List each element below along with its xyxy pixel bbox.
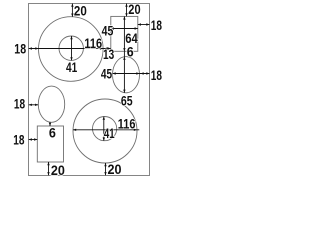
svg-text:65: 65 [121, 93, 133, 109]
svg-text:41: 41 [104, 125, 115, 141]
svg-text:18: 18 [13, 132, 24, 148]
svg-text:18: 18 [151, 67, 162, 83]
svg-text:41: 41 [66, 59, 77, 75]
svg-text:45: 45 [101, 66, 112, 82]
svg-text:6: 6 [49, 125, 56, 141]
svg-text:20: 20 [74, 2, 87, 18]
svg-text:20: 20 [51, 162, 65, 178]
svg-text:20: 20 [128, 1, 140, 17]
svg-text:18: 18 [151, 17, 162, 33]
svg-text:13: 13 [103, 46, 114, 62]
svg-text:116: 116 [118, 116, 136, 132]
svg-text:18: 18 [14, 96, 25, 112]
svg-text:20: 20 [108, 161, 122, 177]
svg-text:45: 45 [102, 23, 114, 39]
svg-text:18: 18 [14, 41, 26, 57]
svg-text:6: 6 [127, 44, 134, 60]
svg-text:116: 116 [84, 35, 102, 51]
